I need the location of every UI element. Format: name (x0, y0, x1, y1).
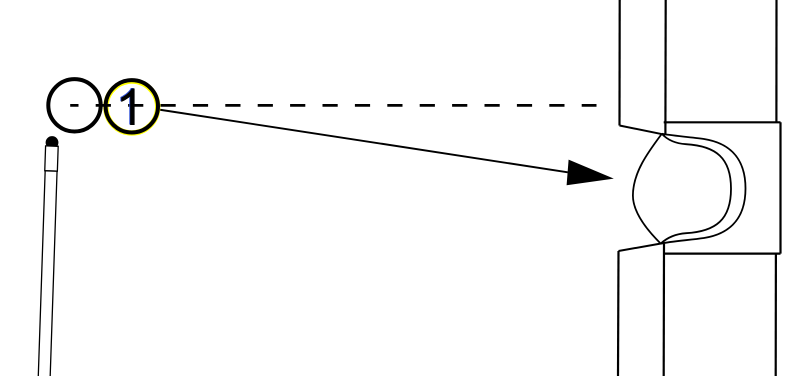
pocket liner outer curve (661, 134, 746, 244)
bottom rail back line (663, 244, 665, 376)
pocket hole left bulge (633, 134, 662, 244)
digit 1 (121, 88, 134, 125)
ball 1 yellow ring (106, 81, 158, 133)
cue stick group (38, 136, 59, 376)
arrow shaft (158, 110, 567, 173)
cue ball (48, 79, 100, 131)
bottom rail inner line (617, 251, 620, 376)
top rail inner line (618, 0, 620, 126)
pocket liner inner curve (661, 134, 731, 244)
cue ferrule (45, 146, 58, 171)
top rail back line (664, 0, 666, 134)
digit 1 blue fringe (120, 88, 133, 125)
ball 1 black ring (106, 80, 158, 132)
bottom table edge line (775, 255, 777, 376)
cue shaft (38, 171, 57, 376)
cue tip (45, 136, 58, 149)
pocket housing right edge (779, 122, 781, 253)
arrowhead (567, 160, 614, 186)
top cushion nose (620, 126, 666, 135)
pocket housing top edge (664, 121, 781, 123)
top table edge line (775, 0, 777, 122)
pocket housing bottom edge (664, 253, 781, 255)
dashed aim line (70, 104, 596, 107)
bottom cushion nose (619, 243, 665, 251)
